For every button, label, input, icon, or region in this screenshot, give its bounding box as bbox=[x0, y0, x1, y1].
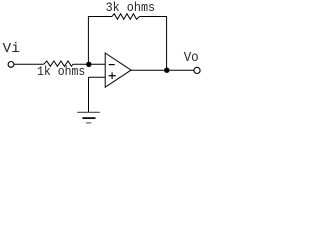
ground bar long bbox=[77, 111, 100, 113]
svg-text:Vi: Vi bbox=[3, 41, 20, 57]
ground bar middle bbox=[82, 117, 95, 119]
node junction dot at inverting input bbox=[86, 62, 91, 67]
resistor R2 3k zigzag bbox=[112, 14, 139, 20]
svg-text:Vo: Vo bbox=[184, 50, 199, 66]
resistor R1 1k zigzag bbox=[44, 61, 73, 66]
wire resistor R1 to op-amp inverting input bbox=[73, 63, 105, 65]
wire op-amp noninverting input bbox=[89, 76, 106, 78]
wire input terminal to resistor R1 bbox=[14, 63, 44, 65]
op-amp U1 triangle bbox=[105, 53, 131, 87]
wire ground vertical bbox=[88, 77, 90, 112]
wire top left horizontal to resistor R2 bbox=[88, 16, 112, 18]
op-amp minus sign bbox=[109, 64, 115, 66]
op-amp plus sign bbox=[109, 75, 116, 77]
wire feedback right vertical bbox=[166, 17, 168, 71]
svg-text:1k ohms: 1k ohms bbox=[37, 64, 85, 79]
input terminal circle Vi bbox=[8, 62, 14, 68]
node junction dot at output bbox=[164, 68, 169, 73]
ground bar short bbox=[86, 122, 92, 124]
wire resistor R2 to top right corner bbox=[139, 16, 167, 18]
wire feedback left vertical bbox=[87, 17, 89, 65]
wire op-amp output bbox=[131, 69, 194, 71]
svg-text:3k ohms: 3k ohms bbox=[106, 0, 156, 15]
output terminal circle Vo bbox=[194, 67, 200, 73]
